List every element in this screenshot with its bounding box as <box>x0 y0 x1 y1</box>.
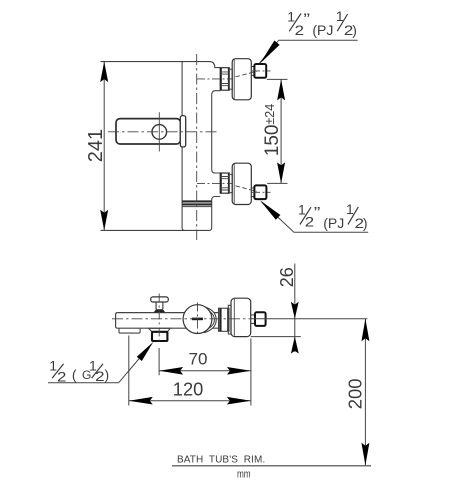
nut (plan) <box>255 312 266 326</box>
top union: ring <box>229 69 232 89</box>
dimension 120 <box>129 336 251 406</box>
top union: nut <box>254 64 266 78</box>
extension line from union center to 200-dim <box>251 318 368 320</box>
svg-text:(: ( <box>72 367 77 383</box>
dimension 241 <box>100 62 108 231</box>
joint band on body <box>182 201 212 206</box>
svg-text:±24: ±24 <box>263 104 277 125</box>
spout notch <box>119 328 140 333</box>
bath tub rim line <box>172 465 371 467</box>
horizontal centerline plan <box>112 318 250 320</box>
svg-text:): ) <box>352 22 357 38</box>
svg-text:): ) <box>363 215 368 231</box>
vertical centerline through knob <box>197 303 199 337</box>
svg-text:26: 26 <box>277 267 297 287</box>
dimension 70 <box>159 339 251 406</box>
top union axis centerline <box>197 78 233 80</box>
top union: nipple <box>251 66 254 75</box>
bottom union: ring <box>229 174 232 192</box>
extension of escutcheon bottom edge <box>251 336 301 338</box>
label plan: 1/2 (G1/2) <box>49 357 109 384</box>
handle (front view) <box>116 112 186 151</box>
svg-text:BATH TUB'S RIM.: BATH TUB'S RIM. <box>177 455 265 466</box>
top union: escutcheon <box>232 59 251 100</box>
svg-text:200: 200 <box>344 378 365 409</box>
nipple (plan) <box>251 315 255 324</box>
bell skirt behind knob <box>203 306 216 333</box>
leader arrow bottom (PJ label) <box>260 200 368 232</box>
collar (plan) <box>228 305 231 334</box>
front view: valve body outline <box>101 62 221 231</box>
svg-text:): ) <box>105 367 110 383</box>
bottom union: escutcheon <box>232 163 251 204</box>
handle screw circle <box>152 125 167 140</box>
svg-text:”: ” <box>303 11 310 28</box>
leader arrow top (PJ label) <box>260 40 358 63</box>
diverter T-handle <box>151 297 169 313</box>
dimension 200 <box>361 319 369 466</box>
label top: 1/2" (PJ1/2) <box>287 8 357 38</box>
svg-text:2: 2 <box>95 368 105 384</box>
svg-text:”: ” <box>314 204 321 221</box>
svg-text:(PJ: (PJ <box>312 22 333 38</box>
svg-text:(PJ: (PJ <box>323 215 344 231</box>
bottom union: nipple <box>251 188 254 197</box>
dimension 26 <box>291 264 299 354</box>
label bottom: 1/2" (PJ1/2) <box>298 201 368 231</box>
svg-text:mm: mm <box>237 468 251 480</box>
bottom union: threads <box>220 173 229 193</box>
svg-text:241: 241 <box>85 129 107 162</box>
top union: threads <box>220 68 229 91</box>
knob circle <box>183 305 212 334</box>
valve neck (plan) <box>219 308 230 331</box>
bar body <box>116 313 219 329</box>
bottom union axis centerline <box>197 182 233 184</box>
leader arrow (G label) <box>48 342 153 383</box>
svg-text:120: 120 <box>173 380 204 400</box>
svg-text:150: 150 <box>262 124 283 156</box>
outlet fitting under bar (G1/2) <box>149 328 171 341</box>
vertical centerline of outlet <box>158 294 160 342</box>
bottom union: nut <box>254 185 266 199</box>
svg-text:70: 70 <box>189 350 208 369</box>
top union eccentric centerline <box>236 71 257 77</box>
horizontal centerline through handle <box>108 131 219 133</box>
bottom union eccentric centerline <box>236 186 257 192</box>
escutcheon (plan) <box>231 298 251 336</box>
svg-text:1: 1 <box>346 201 354 217</box>
svg-text:1: 1 <box>49 357 57 373</box>
vertical centerline of body <box>196 54 198 240</box>
dimension 150 +-24 <box>267 79 288 183</box>
